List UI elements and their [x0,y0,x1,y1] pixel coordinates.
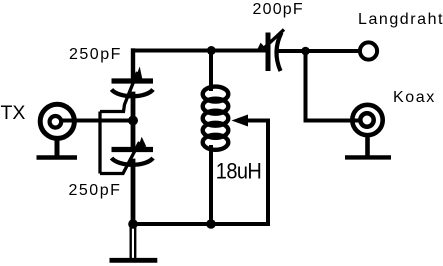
wire TX to cap midpoint [62,119,133,123]
label 200pF [253,1,304,19]
label Koax [393,89,436,107]
node junction bottom rail / ground [128,219,138,229]
wire inductor bottom lead [209,147,213,224]
label TX [1,102,26,125]
node junction top rail / inductor top [207,46,216,55]
label 250pF (top capacitor) [69,46,122,64]
capacitor 250pF bottom (variable) [100,137,153,174]
ground at Koax [345,136,391,157]
label 250pF (bottom capacitor) [69,182,122,200]
wire inductor top lead [209,51,213,90]
inductor tap arrowhead [232,115,249,127]
connector Langdraht terminal [360,42,377,59]
label 18uH [216,160,261,185]
wire top rail left segment [133,49,266,53]
connector TX jack [40,104,74,138]
label Langdraht [358,11,443,29]
wire bottom 250pF capacitor to ground node [131,161,136,224]
ground at TX [37,139,78,158]
ground main (bottom) [110,224,158,260]
inductor 18uH coil [203,87,229,150]
wire inductor tap feedback (up right side) [248,121,268,225]
node junction at cap midpoint [128,116,138,126]
wire bottom rail [133,222,268,226]
wire Langdraht-node down to Koax [306,51,359,121]
wire between top and bottom 250pF capacitors [131,94,136,148]
wire top-left vertical (cap string to top rail) [131,51,135,81]
capacitor 200pF (variable) [256,30,284,72]
connector Koax jack [352,105,382,135]
node junction bottom rail / inductor bottom [206,219,216,229]
node junction top rail / Koax branch [301,47,310,56]
wire top rail right segment (cap to Langdraht) [281,49,359,53]
capacitor 250pF top (variable) [100,67,153,112]
gang bracket joining both 250pF rotors [98,112,101,174]
